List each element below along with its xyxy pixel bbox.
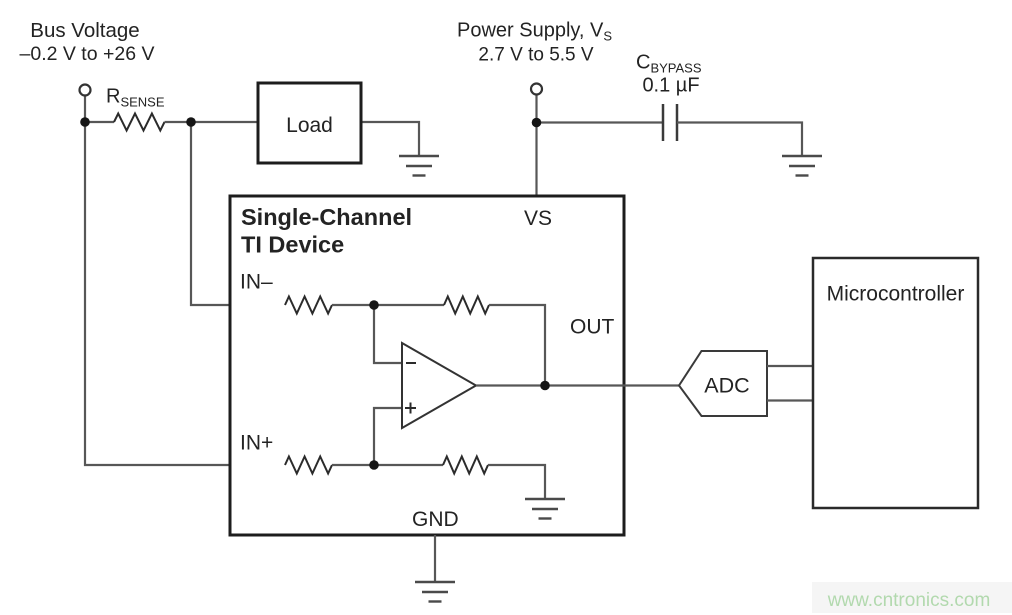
svg-text:–0.2 V to +26 V: –0.2 V to +26 V xyxy=(20,43,155,65)
svg-text:Single-Channel: Single-Channel xyxy=(241,204,412,230)
svg-text:ADC: ADC xyxy=(704,374,749,398)
svg-text:0.1 µF: 0.1 µF xyxy=(642,75,699,97)
svg-text:Bus Voltage: Bus Voltage xyxy=(30,19,139,42)
svg-text:IN–: IN– xyxy=(240,271,273,294)
svg-text:IN+: IN+ xyxy=(240,432,273,455)
svg-text:VS: VS xyxy=(524,207,552,230)
svg-text:www.cntronics.com: www.cntronics.com xyxy=(827,590,991,611)
svg-text:GND: GND xyxy=(412,508,459,531)
svg-text:RSENSE: RSENSE xyxy=(106,86,165,110)
svg-text:Load: Load xyxy=(286,114,333,137)
svg-text:OUT: OUT xyxy=(570,316,615,339)
svg-text:TI Device: TI Device xyxy=(241,232,344,258)
svg-text:2.7 V to 5.5 V: 2.7 V to 5.5 V xyxy=(478,45,593,66)
svg-text:CBYPASS: CBYPASS xyxy=(636,52,702,76)
svg-text:Power Supply, VS: Power Supply, VS xyxy=(457,20,612,44)
svg-text:Microcontroller: Microcontroller xyxy=(827,283,965,306)
